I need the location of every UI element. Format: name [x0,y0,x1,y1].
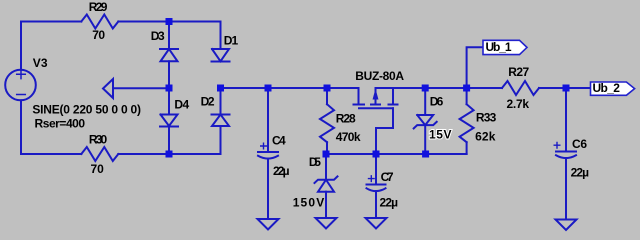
svg-text:D5: D5 [309,155,321,169]
wire D1 top lead [220,22,222,50]
ground under D5 [316,218,337,229]
wire R33 top lead [466,88,468,104]
wire D4 bottom lead [168,127,170,155]
diode D3 [160,49,178,61]
svg-text:150V: 150V [293,196,325,210]
resistor R33 [460,104,474,142]
svg-text:22µ: 22µ [273,164,290,178]
svg-text:D2: D2 [201,94,215,108]
junction C4 top [265,85,272,92]
wire C6 bottom lead [565,158,567,220]
resistor R29 [81,15,118,29]
junction bottom rail / D4 [166,151,173,158]
svg-text:C7: C7 [381,170,394,184]
wire left column top lead [168,22,170,50]
resistor R28 [320,104,334,142]
svg-text:V3: V3 [33,56,48,70]
voltage source V3 [5,70,36,101]
svg-text:70: 70 [92,28,105,42]
svg-text:R27: R27 [508,65,529,79]
svg-text:R33: R33 [476,111,497,125]
junction C6 top / Ub_2 [563,85,570,92]
junction R28 top [324,85,331,92]
transistor Q1 bulk leg [371,88,380,105]
capacitor C7 [367,185,386,192]
wire top rail left [21,21,81,23]
svg-text:D4: D4 [174,98,189,112]
junction mid-right node [217,85,224,92]
svg-text:R28: R28 [336,112,356,126]
wire gate node horizontal [327,153,467,155]
junction D6 bottom [422,151,429,158]
svg-text:D1: D1 [224,33,239,47]
wire bottom rail left [21,153,81,155]
wire D2 to mid-right node [220,88,222,115]
wire C7 bottom lead [375,191,377,218]
svg-text:470k: 470k [336,130,361,144]
junction mid-left node [166,85,173,92]
transistor Q1 BUZ-80A drain leg [354,88,365,105]
ground flag at bridge mid-left (rotated) [103,79,113,98]
wire C7 top lead [375,154,377,185]
wire bottom rail right [118,153,220,155]
diode D2 [212,115,230,127]
C7 plus sign [369,176,375,182]
resistor R30 [81,147,118,161]
wire R28 top lead [326,88,328,104]
wire source node horizontal [376,87,503,89]
svg-text:C6: C6 [572,137,587,151]
wire R27 to Ub_2 [539,87,591,89]
junction D6 top [422,85,429,92]
wire C6 top lead [565,88,567,152]
wire node A horizontal [221,87,359,89]
svg-text:R30: R30 [89,132,108,146]
wire right column bottom lead [220,127,222,155]
resistor R27 [502,81,539,95]
svg-text:22µ: 22µ [380,196,399,210]
V3 minus sign [17,94,26,96]
net flag Ub_2 [591,81,635,95]
net flag Ub_1 [483,40,527,55]
wire C4 top lead [267,88,269,152]
ground under C6 [556,220,577,231]
wire R28 bottom lead [326,142,328,154]
wire D6 bottom lead [424,125,426,154]
capacitor C4 [258,152,278,159]
capacitor C6 [556,152,576,159]
wire top rail right [118,21,220,23]
zener diode D6 [414,115,437,128]
wire R33 bottom lead [466,142,468,154]
svg-text:C4: C4 [272,133,286,147]
wire D6 top lead [424,88,426,115]
wire D4 top lead [168,88,170,115]
junction gate / C7 [373,151,380,158]
svg-text:Ub_2: Ub_2 [593,81,621,95]
wire Ub_1 drop [467,47,483,88]
wire D5 top lead [325,154,327,180]
V3 plus sign [17,70,26,79]
svg-text:Ub_1: Ub_1 [486,40,512,54]
wire gate with jog [376,108,393,154]
svg-text:D6: D6 [430,95,444,109]
svg-text:Rser=400: Rser=400 [35,117,86,131]
svg-text:SINE(0 220 50 0 0 0): SINE(0 220 50 0 0 0) [32,103,141,117]
transistor Q1 gate plate [359,107,393,109]
C4 plus sign [261,143,267,149]
transistor Q1 bulk arrow [373,91,378,100]
svg-text:15V: 15V [429,127,452,141]
diode D4 [160,115,178,127]
wire D3 bottom lead [168,61,170,88]
wire D5 bottom lead [325,192,327,218]
wire left rail lower [20,100,22,154]
zener diode D5 [315,176,338,191]
svg-text:70: 70 [91,162,105,176]
svg-text:D3: D3 [151,29,165,43]
C6 plus sign [554,142,560,148]
transistor Q1 source leg [389,88,398,105]
svg-text:22µ: 22µ [571,166,590,180]
ground under C7 [366,218,387,229]
junction top rail / D3 [166,18,173,25]
wire left rail upper [20,22,22,70]
wire ground to mid-left node [113,87,169,89]
svg-text:62k: 62k [475,129,496,143]
junction R28 bottom / D5 [323,151,330,158]
diode D1 [212,49,230,62]
ground under C4 [258,219,279,230]
svg-text:2.7k: 2.7k [507,97,530,111]
svg-text:R29: R29 [89,0,108,14]
svg-text:BUZ-80A: BUZ-80A [355,69,404,83]
wire C4 bottom lead [267,159,269,220]
junction R33 top / Ub_1 [463,85,470,92]
